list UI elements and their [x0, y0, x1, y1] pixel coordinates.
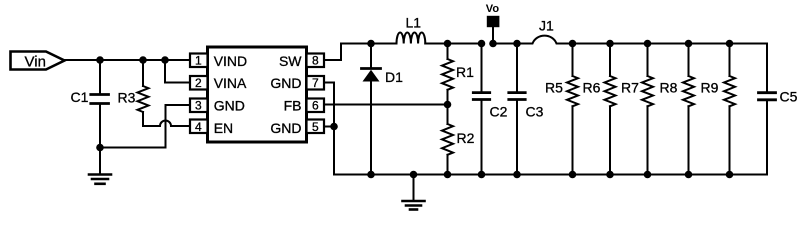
resistor R3 [138, 60, 149, 126]
wire bottom rail [371, 174, 767, 176]
node R8 top [685, 40, 693, 48]
node ground middle [410, 171, 418, 179]
node FB junction [444, 101, 452, 109]
node pin5/7 junction [330, 123, 338, 131]
wire rail R7-R8 [648, 43, 689, 45]
svg-text:SW: SW [279, 53, 302, 69]
svg-text:1: 1 [195, 54, 202, 68]
wire rail R1 to C2 [448, 43, 482, 45]
resistor R9 [724, 44, 735, 175]
resistor R1 [442, 44, 453, 105]
resistor R6 [605, 44, 616, 175]
svg-text:Vo: Vo [486, 3, 500, 15]
resistor R7 [642, 44, 653, 175]
node R8 bottom [685, 171, 693, 179]
ground (middle) [403, 201, 425, 210]
svg-text:R2: R2 [457, 130, 475, 146]
Vo terminal square [487, 16, 500, 27]
node C3 top [513, 40, 521, 48]
wire to pin 2 [165, 60, 190, 83]
node pin2 branch [161, 56, 169, 64]
node R1 top [444, 40, 452, 48]
node C3 bottom [513, 171, 521, 179]
Vin input flag [11, 52, 65, 70]
node R5 top [569, 40, 577, 48]
node C2 top [478, 40, 486, 48]
svg-text:6: 6 [312, 99, 319, 113]
node ground left [96, 144, 104, 152]
pin 1 box [190, 54, 208, 68]
svg-text:FB: FB [284, 98, 302, 114]
wire rail R9 to right edge [730, 43, 768, 45]
svg-text:R9: R9 [701, 80, 719, 96]
wire rail R5-R6 [573, 43, 611, 45]
pin 7 box [307, 76, 325, 90]
pin 8 box [307, 54, 325, 68]
svg-text:R1: R1 [456, 64, 474, 80]
wire pin 5 [324, 126, 334, 128]
wire pin 3 to ground rail [166, 105, 191, 148]
node R3 top [139, 56, 147, 64]
resistor R8 [683, 44, 694, 175]
jumper J1 [517, 36, 573, 44]
svg-text:GND: GND [214, 98, 245, 114]
svg-text:C5: C5 [780, 89, 798, 105]
svg-text:GND: GND [270, 75, 301, 91]
diode D1 [362, 44, 381, 175]
svg-text:3: 3 [195, 99, 202, 113]
capacitor C5 on right edge [759, 44, 776, 175]
wire top rail to L1 [371, 43, 397, 45]
node R7 top [644, 40, 652, 48]
svg-text:R3: R3 [118, 90, 136, 106]
svg-text:VIND: VIND [214, 53, 247, 69]
capacitor C2 [473, 44, 489, 175]
wire FB pin 6 to divider [324, 104, 448, 106]
wire rail R8-R9 [689, 43, 730, 45]
node R7 bottom [644, 171, 652, 179]
inductor L1 [397, 32, 426, 43]
node R2 bottom [444, 171, 452, 179]
svg-text:C2: C2 [490, 104, 508, 120]
pin 5 box [307, 120, 325, 134]
wire down to ground [99, 148, 101, 174]
svg-text:R6: R6 [583, 80, 601, 96]
node R6 top [606, 40, 614, 48]
node R9 top [726, 40, 734, 48]
resistor R2 [442, 105, 453, 175]
svg-text:J1: J1 [539, 18, 554, 34]
wire R3 bottom to pin 4 with hump [143, 121, 190, 126]
wire ground rail left [100, 147, 166, 149]
svg-text:2: 2 [195, 76, 202, 90]
capacitor C1 [91, 60, 109, 148]
svg-text:GND: GND [270, 120, 301, 136]
node C1 top [96, 56, 104, 64]
svg-text:C3: C3 [526, 104, 544, 120]
node D1 top [367, 40, 375, 48]
svg-text:VINA: VINA [214, 75, 247, 91]
resistor R5 [567, 44, 578, 175]
wire L1 to R1 node [425, 43, 447, 45]
svg-text:L1: L1 [406, 15, 422, 31]
op-amp U1 IC body [208, 47, 307, 142]
pin 6 box [307, 99, 325, 113]
svg-text:R7: R7 [621, 80, 639, 96]
svg-text:EN: EN [214, 120, 233, 136]
wire Vo stub [492, 27, 494, 44]
wire Vin to pin 1 [65, 59, 191, 61]
capacitor C3 [509, 44, 525, 175]
wire pin 7 down [324, 83, 334, 127]
pin 4 box [190, 120, 208, 134]
wire pin 8 to top rail [324, 44, 371, 61]
svg-text:R5: R5 [545, 80, 563, 96]
wire rail R6-R7 [610, 43, 648, 45]
pin 3 box [190, 99, 208, 113]
ground (left) [89, 175, 111, 184]
node R5 bottom [569, 171, 577, 179]
wire rail Vo to C3 [493, 43, 517, 45]
svg-text:8: 8 [312, 54, 319, 68]
svg-text:D1: D1 [385, 69, 403, 85]
node C2 bottom [478, 171, 486, 179]
wire pin5 vertical to bottom rail [334, 127, 371, 175]
svg-text:4: 4 [195, 120, 202, 134]
pin 2 box [190, 76, 208, 90]
node R6 bottom [606, 171, 614, 179]
node D1 bottom [367, 171, 375, 179]
node R9 bottom [726, 171, 734, 179]
svg-text:C1: C1 [71, 89, 89, 105]
node Vo [489, 40, 497, 48]
svg-text:7: 7 [312, 76, 319, 90]
wire ground stub [413, 175, 415, 201]
svg-text:R8: R8 [660, 80, 678, 96]
svg-text:Vin: Vin [25, 54, 46, 71]
svg-text:5: 5 [312, 120, 319, 134]
